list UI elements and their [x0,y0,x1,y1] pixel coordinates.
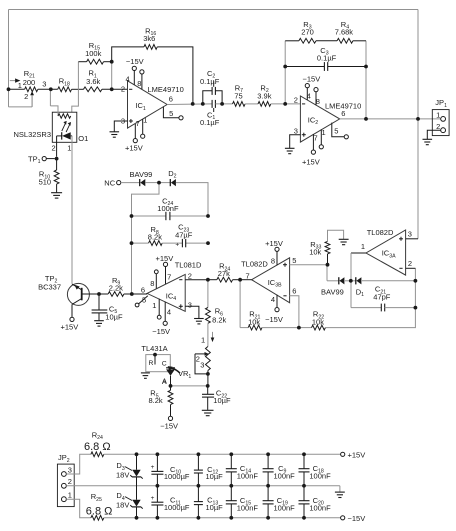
svg-text:1: 1 [18,81,22,90]
svg-text:+: + [175,241,179,248]
svg-text:7: 7 [136,119,140,128]
svg-text:18V: 18V [116,470,129,479]
svg-text:2: 2 [196,355,200,364]
svg-text:A: A [162,378,167,385]
wire R21 to node 3 [38,88,58,90]
resistor R8 8.2k [132,225,163,246]
connector JP1 [427,98,449,139]
svg-text:6: 6 [292,286,296,295]
terminal +15V [341,450,366,459]
svg-text:0.1µF: 0.1µF [200,118,220,127]
node C23 right junction [206,241,210,245]
capacitor C11 1000uF [151,486,190,518]
resistor R15 100k [78,41,111,64]
node IC2 pin2 junction [283,102,287,106]
wire R6 to pot [207,323,209,346]
svg-text:LME49710: LME49710 [148,85,184,94]
svg-text:R: R [149,360,154,367]
svg-text:75: 75 [234,92,242,101]
svg-text:2: 2 [121,85,125,94]
svg-text:+: + [151,495,155,502]
wire C21 loop left [351,281,381,308]
resistor R7 75 [233,83,246,106]
svg-text:4: 4 [271,295,275,304]
terminal NC [104,179,139,188]
node -rail junction x=136 [135,516,139,520]
svg-text:NC: NC [104,179,115,188]
capacitor C13 10uF [194,486,223,518]
svg-text:TL081D: TL081D [175,261,202,270]
svg-text:8.2k: 8.2k [212,316,226,325]
svg-text:3.9k: 3.9k [257,92,271,101]
diode BAV99 (right half) [321,277,344,296]
op-amp IC2 LME49710 [285,74,361,166]
svg-text:−15V: −15V [160,421,178,430]
capacitor C1 0.1uF [200,100,220,127]
node pot strap junction [206,372,210,376]
svg-text:100nF: 100nF [237,504,259,513]
resistor R24 27k [208,262,240,283]
capacitor C18 100nF [299,454,332,486]
svg-text:10k: 10k [312,317,324,326]
capacitor C9 100nF [263,454,296,486]
svg-text:100nF: 100nF [274,504,296,513]
resistor R10 510 [39,159,59,193]
node mid rail junction x=230.8 [229,484,233,488]
ground below JP1 [423,139,433,144]
op-amp IC1 LME49710 [110,57,184,153]
svg-text:510: 510 [39,178,52,187]
svg-text:47pF: 47pF [373,292,391,301]
diode BAV99 (left half) [130,170,153,186]
wire R7 to R2 [245,103,258,105]
shunt reference VR1 TL431A [141,344,191,386]
node +rail junction x=197.9 [197,452,201,456]
capacitor C23 47uF [162,223,208,249]
capacitor C5 10uF [92,294,123,321]
svg-text:100nF: 100nF [237,472,259,481]
svg-text:−15V: −15V [303,74,321,83]
wire IC1 output row [167,103,212,106]
node junction left rail / R21 pin1 [7,87,11,91]
node 3 junction [49,87,53,91]
svg-text:10k: 10k [248,317,260,326]
node -rail junction x=303.5 [302,516,306,520]
svg-text:1: 1 [152,301,156,310]
svg-text:5: 5 [169,109,173,118]
resistor R16 3k6 [143,26,157,49]
node C3 left junction [283,65,287,69]
wire JP2 pin1 to -rail [66,499,91,518]
svg-text:1: 1 [143,115,147,124]
wire BAV99 to D2 node [145,182,159,184]
wire node stub down-left [132,183,160,294]
node R8 left junction [130,241,134,245]
svg-text:1000µF: 1000µF [164,472,190,481]
svg-text:47µF: 47µF [175,230,193,239]
wire opto pin1 down to transistor collector [71,136,73,284]
svg-text:7: 7 [246,272,250,281]
wire IC2 feedback right leg [365,41,367,119]
potentiometer VR1 wiper strap [195,332,214,386]
svg-text:6: 6 [141,285,145,294]
resistor R4 7.68k [335,20,366,43]
testpoint TP1 [28,154,55,165]
svg-text:−15V: −15V [152,327,170,336]
svg-text:100nF: 100nF [274,472,296,481]
svg-text:2: 2 [24,92,28,101]
node mid rail junction x=303.5 [302,484,306,488]
node +rail junction x=267.6 [266,452,270,456]
node mid rail junction x=156.9 [156,484,160,488]
node C21 right junction [414,306,418,310]
capacitor C14 100nF [226,454,259,486]
transistor Q1 BC337 (TP2) [38,274,99,332]
svg-text:1: 1 [201,335,205,344]
resistor R9 2.2k [108,276,124,297]
capacitor C12 10uF [194,454,223,486]
svg-text:100k: 100k [85,49,102,58]
svg-text:+15V: +15V [265,239,283,248]
node C3 right junction [364,65,368,69]
svg-text:4: 4 [167,308,171,317]
resistor R21 10k [240,310,299,330]
svg-text:27k: 27k [218,269,230,278]
svg-text:3: 3 [42,79,46,88]
diode D1 [356,277,364,298]
wire pin5 node down to diode row [327,265,339,281]
svg-text:1: 1 [322,128,326,137]
svg-text:100nF: 100nF [309,472,331,481]
wire R15 node down to pin2 row [111,62,113,90]
node IC1 output junction a [191,102,195,106]
ground at TL431A ref [141,373,150,378]
svg-text:0.1µF: 0.1µF [317,53,337,62]
svg-text:BC337: BC337 [38,283,61,292]
wire R9 to base [99,293,108,295]
svg-text:TL082D: TL082D [241,260,268,269]
wire R2 to IC2 pin2 [271,103,301,105]
svg-text:8.2k: 8.2k [149,396,163,405]
svg-text:200: 200 [23,78,36,87]
wire IC2 feedback left leg [284,41,286,104]
ground mid rail [335,492,345,497]
svg-text:100nF: 100nF [157,204,179,213]
svg-text:10µF: 10µF [206,503,224,512]
svg-text:C: C [162,361,167,368]
svg-text:+15V: +15V [125,144,143,153]
svg-text:2: 2 [294,96,298,105]
svg-text:3: 3 [408,230,412,239]
connector JP2 [57,453,74,507]
wire R18 to R1 [72,88,84,90]
svg-text:10µF: 10µF [105,312,123,321]
wire IC3A output down to rect node [350,253,352,281]
svg-text:7.68k: 7.68k [335,28,354,37]
wire rect node [345,280,356,282]
wire +15V rail [104,453,341,455]
node R21/R22 junction [297,326,301,330]
wire node A rail [171,385,208,387]
node JP1 rail junction [416,117,420,121]
svg-text:5: 5 [334,127,338,136]
node +rail junction x=303.5 [302,452,306,456]
svg-text:3k6: 3k6 [143,34,155,43]
node C24 left junction [130,214,134,218]
svg-text:LME49710: LME49710 [325,101,361,110]
node -rail junction x=230.8 [229,516,233,520]
svg-text:2: 2 [68,477,72,486]
wire IC2 output to JP1 rail [340,118,441,120]
resistor R1 3.6k [84,69,102,92]
wire IC3B output node down [239,280,241,328]
svg-text:1: 1 [436,111,440,120]
diode D2 [159,169,177,186]
capacitor C20 100nF [299,486,332,518]
node IC4 output / rail junction [130,292,134,296]
svg-text:10µF: 10µF [206,472,224,481]
ground below C5 [94,321,104,326]
wire C-rail pin2node to R6 [207,280,209,308]
node -rail junction x=156.9 [156,516,160,520]
wire IC3B pin5 row [290,264,328,266]
node IC3A pin2 junction [414,279,418,283]
wire top feedback rail [9,9,419,11]
svg-text:BAV99: BAV99 [321,287,344,296]
wire C1 to R7 [215,103,232,105]
svg-text:8: 8 [316,97,320,106]
op-amp IC4 TL081D [135,254,203,336]
node C1 right junction [220,102,224,106]
resistor R6 8.2k [206,307,227,325]
resistor R33 10k [309,230,343,265]
svg-text:3.6k: 3.6k [86,77,100,86]
svg-text:4: 4 [126,74,130,83]
svg-text:4: 4 [307,92,311,101]
node C24 right junction [206,214,210,218]
terminal -15V below R5 [160,416,178,430]
capacitor C2 0.1uF [200,69,222,104]
svg-text:+15V: +15V [348,450,366,459]
resistor R18 [58,77,72,92]
svg-text:10µF: 10µF [213,396,231,405]
capacitor C3 0.1uF [285,46,366,71]
resistor R22 10k [299,268,416,330]
node -rail junction x=197.9 [197,516,201,520]
wire R16 loop [112,47,193,104]
svg-text:6: 6 [341,109,345,118]
op-amp IC3B TL082D [240,239,296,324]
svg-text:NSL32SR3: NSL32SR3 [14,130,52,139]
svg-text:+15V: +15V [156,254,174,263]
svg-text:+: + [151,464,155,471]
wire D2 right to C-rail [176,183,208,216]
wire top-left feedback rail (left side) [9,10,33,107]
node BAV99/D2 junction [157,181,161,185]
svg-text:8.2k: 8.2k [148,233,162,242]
svg-text:8: 8 [137,79,141,88]
node IC4 pin2 / C-rail junction [206,278,210,282]
node base / C5 junction [97,292,101,296]
svg-text:1: 1 [68,491,72,500]
svg-text:TL431A: TL431A [141,344,167,353]
svg-text:+15V: +15V [61,322,79,331]
resistor R3 270 [285,20,337,43]
resistor R25 6.8ohm [86,492,113,520]
svg-text:2: 2 [408,259,412,268]
svg-text:+15V: +15V [302,157,320,166]
capacitor C22 10uF [202,386,231,410]
terminal -15V [341,514,366,523]
svg-text:8: 8 [271,256,275,265]
svg-text:3: 3 [68,465,72,474]
capacitor C19 100nF [263,486,296,518]
resistor R5 8.2k [149,386,173,416]
svg-text:2: 2 [188,271,192,280]
svg-text:1: 1 [361,242,365,251]
capacitor C10 1000uF [151,454,190,486]
node R15/R16 junction [110,60,114,64]
wire IC4 pin2 to node [185,279,208,281]
node C1 left junction [201,102,205,106]
svg-text:7: 7 [314,134,318,143]
ground below C22 [202,410,214,415]
resistor R21 200 trimmer [10,69,47,107]
node +rail junction x=136 [135,452,139,456]
svg-text:−15V: −15V [348,514,366,523]
node TP1 junction [55,157,59,161]
node R33 junction [326,263,330,267]
svg-text:TL082D: TL082D [367,228,394,237]
svg-text:0.1µF: 0.1µF [200,77,220,86]
node A junction [162,378,172,388]
node mid rail junction x=267.6 [266,484,270,488]
svg-text:O1: O1 [78,134,88,143]
svg-text:10k: 10k [309,248,321,257]
svg-text:3: 3 [188,301,192,310]
svg-text:−15V: −15V [265,315,283,324]
svg-text:5: 5 [142,295,146,304]
wire D1 to pin2 node [362,280,415,282]
wire right rail down to JP1 and IC3A pin3 [417,10,419,239]
svg-text:2: 2 [52,144,56,153]
node mid rail junction x=197.9 [197,484,201,488]
svg-text:6.8 Ω: 6.8 Ω [86,505,113,517]
capacitor C15 100nF [226,486,259,518]
svg-text:1: 1 [67,144,71,153]
svg-text:8: 8 [150,279,154,288]
zener D3 18V [116,454,143,499]
svg-text:BAV99: BAV99 [130,170,153,179]
ground above R33 [339,239,349,244]
svg-text:3: 3 [200,360,204,369]
svg-text:100nF: 100nF [309,504,331,513]
svg-text:1000µF: 1000µF [164,503,190,512]
svg-text:6: 6 [169,95,173,104]
svg-text:2.2k: 2.2k [109,284,123,293]
wire R15 left leg to opto [72,62,79,112]
op-amp IC3A TL082D [351,228,418,275]
node +rail junction x=156.9 [156,452,160,456]
node IC3B output junction [238,278,242,282]
capacitor C24 100nF [132,196,209,220]
wire R1 to IC1 pin2 [102,88,128,90]
node -rail junction x=267.6 [266,516,270,520]
wire -15V rail [104,517,341,519]
node +rail junction x=230.8 [229,452,233,456]
node C22 junction [206,384,210,388]
node rectifier junction [349,279,353,283]
wire JP2 pin3 to +rail [66,454,91,474]
resistor R24b 6.8ohm [84,430,111,456]
wire IC3B pin6 jog [290,296,299,328]
svg-text:6.8 Ω: 6.8 Ω [84,441,111,453]
wire IC4 output row [124,292,147,295]
node IC1 pin2 junction [110,87,114,91]
svg-text:−15V: −15V [126,57,144,66]
wire mid rail [66,486,340,492]
resistor R2 3.9k [257,83,271,106]
node IC2 feedback output junction [364,117,368,121]
zener D4 18V [116,491,143,518]
svg-text:5: 5 [292,256,296,265]
ground below R10 [51,193,62,198]
svg-text:18V: 18V [116,500,129,509]
wire input row to R21 [9,88,25,90]
capacitor C21 47pF [373,285,415,312]
optocoupler O1 NSL32SR3 [14,89,89,156]
svg-text:270: 270 [301,28,314,37]
svg-text:7: 7 [167,273,171,282]
